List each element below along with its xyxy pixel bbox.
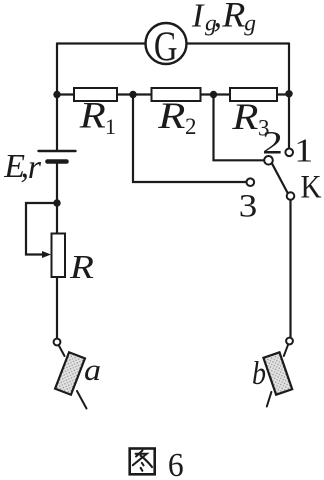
- svg-text:K: K: [301, 168, 322, 205]
- svg-text:2: 2: [262, 125, 283, 161]
- svg-text:b: b: [252, 355, 266, 392]
- svg-text:R: R: [79, 94, 106, 136]
- svg-text:G: G: [154, 24, 178, 71]
- svg-text:R: R: [221, 0, 245, 34]
- svg-text:6: 6: [168, 447, 184, 480]
- svg-text:,: ,: [214, 0, 223, 34]
- svg-text:a: a: [84, 353, 101, 387]
- svg-text:I: I: [191, 0, 205, 34]
- svg-text:R: R: [157, 95, 185, 136]
- svg-text:R: R: [231, 96, 258, 138]
- svg-text:1: 1: [105, 114, 116, 139]
- svg-text:3: 3: [239, 187, 257, 224]
- svg-text:1: 1: [294, 131, 313, 169]
- svg-text:r: r: [28, 149, 42, 186]
- svg-text:2: 2: [185, 114, 197, 139]
- svg-text:R: R: [69, 247, 94, 285]
- svg-text:g: g: [244, 10, 256, 36]
